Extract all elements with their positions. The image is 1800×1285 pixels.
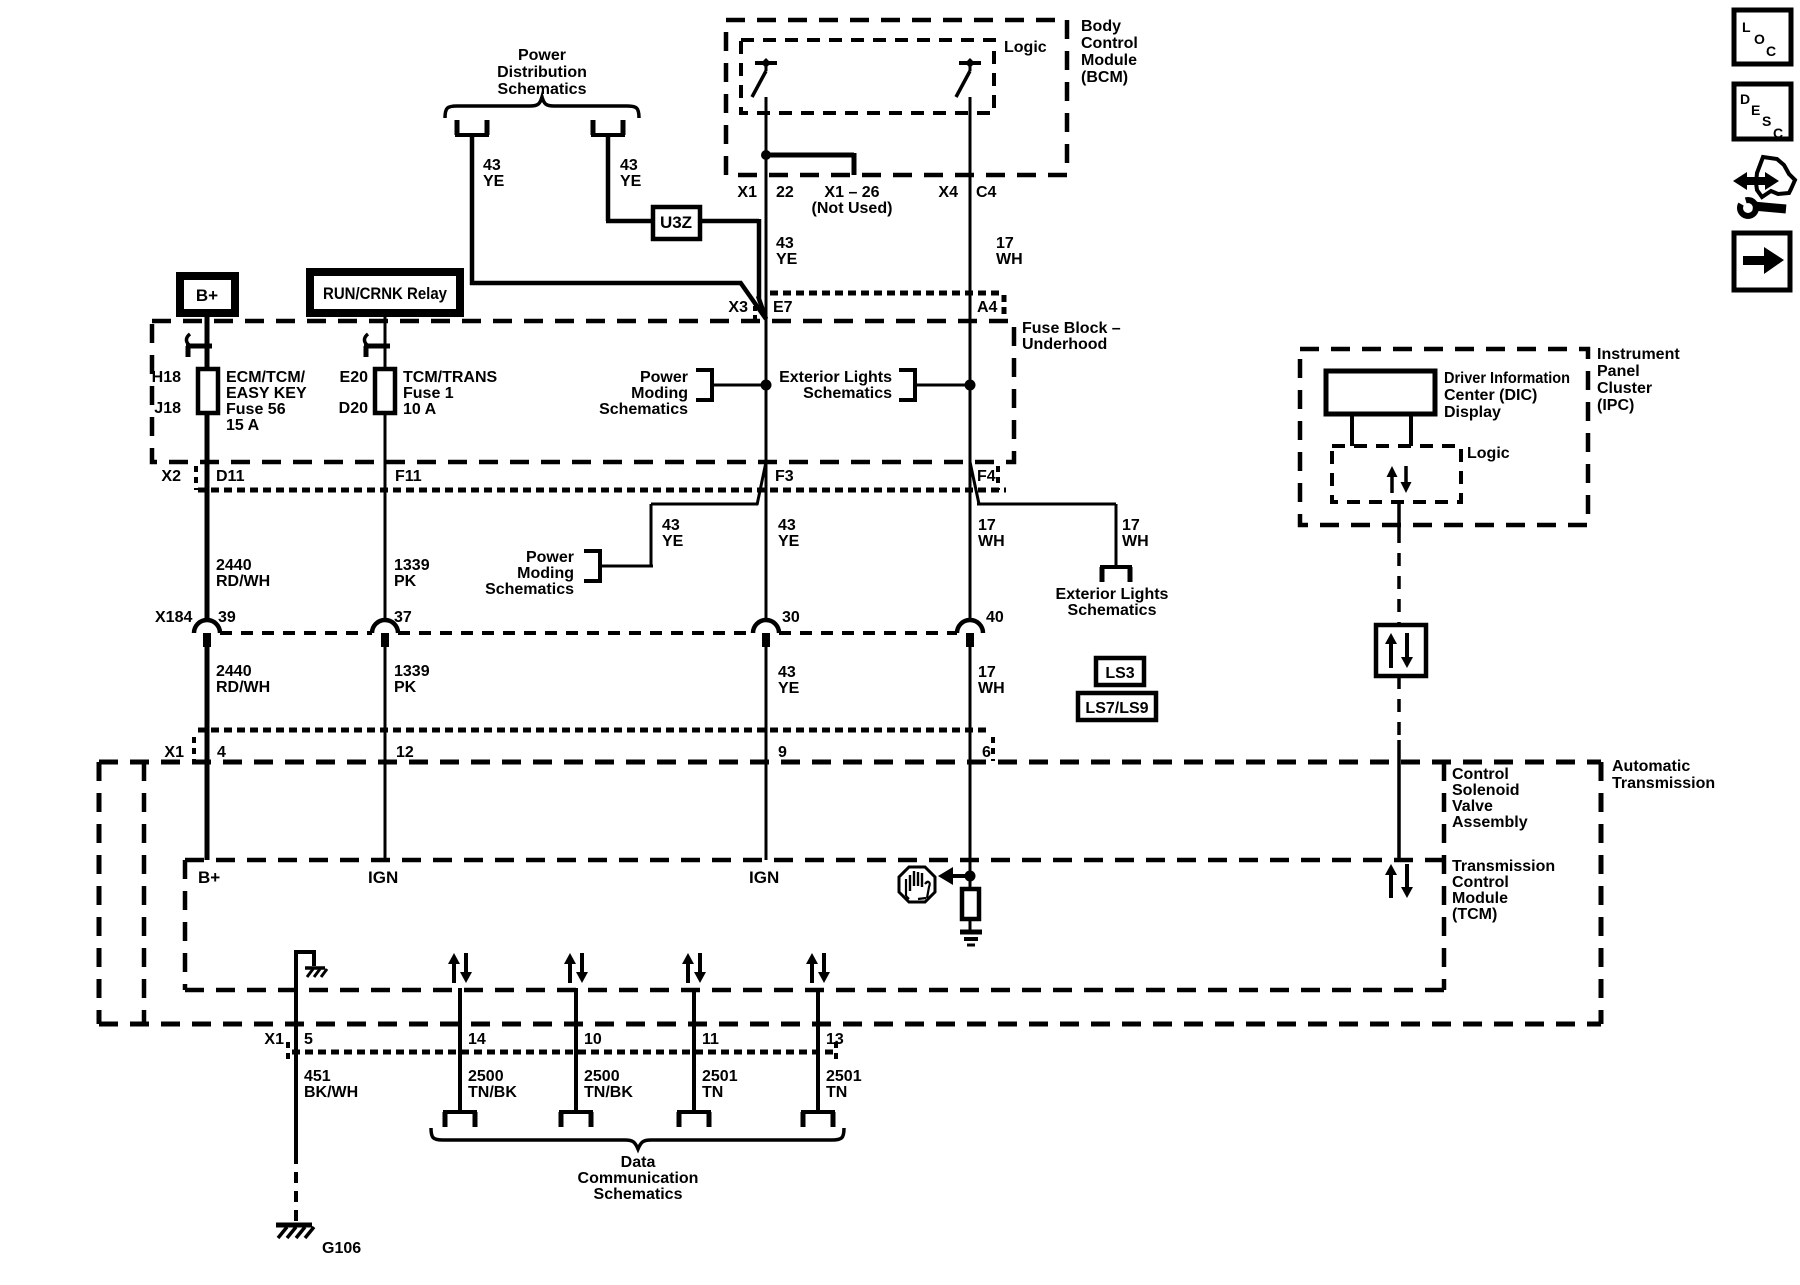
svg-text:Module: Module — [1452, 890, 1508, 907]
component U3Z — [653, 207, 700, 239]
svg-text:Moding: Moding — [517, 565, 574, 582]
IPC label — [1597, 346, 1680, 414]
wire 43 YE lower — [765, 647, 768, 860]
svg-text:X1: X1 — [737, 184, 757, 201]
brace power distribution — [445, 97, 639, 118]
wire IPC serial data dashed lower — [1397, 676, 1401, 858]
pin label X1 22 — [737, 184, 793, 201]
svg-text:Schematics: Schematics — [1068, 602, 1157, 619]
svg-text:X4: X4 — [938, 184, 958, 201]
svg-text:X3: X3 — [728, 299, 748, 316]
IPC logic dashed box — [1332, 446, 1461, 502]
svg-text:RD/WH: RD/WH — [216, 679, 270, 696]
label Exterior Lights Schematics (fuse block) — [779, 369, 892, 402]
svg-text:Logic: Logic — [1004, 39, 1047, 56]
fuse block label — [1022, 320, 1121, 353]
svg-text:Logic: Logic — [1467, 445, 1510, 462]
svg-text:Distribution: Distribution — [497, 64, 587, 81]
bracket power moding 2 — [584, 551, 600, 581]
engine code LS7/LS9 box — [1078, 693, 1156, 720]
power feed RUN/CRNK Relay box — [310, 272, 460, 313]
svg-text:Center (DIC): Center (DIC) — [1444, 387, 1537, 404]
control solenoid valve assembly label — [1452, 766, 1528, 831]
connector half exterior lights — [1100, 567, 1132, 582]
node junction 17WH/TCM — [965, 871, 976, 882]
svg-text:Display: Display — [1444, 404, 1501, 421]
connector hook H18 — [186, 334, 212, 357]
DIC display box — [1326, 371, 1435, 414]
svg-text:F3: F3 — [775, 468, 794, 485]
icon DESC box — [1734, 84, 1791, 141]
svg-text:43: 43 — [662, 517, 680, 534]
wire label 17 WH main — [978, 517, 1005, 550]
wire 2440 RD/WH label lower — [216, 663, 270, 696]
wire 17 WH lower — [969, 647, 972, 873]
svg-text:Fuse Block –: Fuse Block – — [1022, 320, 1121, 337]
wire BCM C4 drop — [969, 97, 972, 620]
svg-text:LS3: LS3 — [1105, 665, 1134, 682]
svg-text:Transmission: Transmission — [1452, 858, 1555, 875]
svg-text:Automatic: Automatic — [1612, 758, 1690, 775]
svg-text:Data: Data — [621, 1154, 656, 1171]
pin labels X2 D11 F11 F3 F4 — [161, 468, 995, 485]
serial data arrows (pin 13) — [806, 953, 830, 983]
svg-text:E7: E7 — [773, 299, 793, 316]
BCM logic dashed box — [741, 40, 994, 113]
svg-text:WH: WH — [978, 680, 1005, 697]
svg-text:YE: YE — [776, 251, 798, 268]
BCM label — [1081, 18, 1138, 86]
svg-text:F11: F11 — [395, 468, 422, 485]
control solenoid valve assembly dashed edges — [144, 762, 1444, 1024]
svg-text:G106: G106 — [322, 1240, 361, 1257]
wire 1339 PK label upper — [394, 557, 430, 590]
label Exterior Lights Schematics 2 — [1056, 586, 1169, 619]
wire branch to power moding 2 — [600, 462, 766, 567]
connector half (power dist right) — [591, 120, 625, 135]
svg-text:Solenoid: Solenoid — [1452, 782, 1520, 799]
wire label 2501 TN (13) — [826, 1068, 862, 1101]
svg-text:Valve: Valve — [1452, 798, 1493, 815]
wire label 43 YE main — [778, 517, 800, 550]
svg-text:Control: Control — [1452, 874, 1509, 891]
wire label 43 YE (pin22) — [776, 235, 798, 268]
wire fuse56 to X2 — [205, 413, 210, 620]
svg-text:43: 43 — [620, 157, 638, 174]
svg-text:D: D — [1740, 91, 1750, 107]
svg-text:EASY KEY: EASY KEY — [226, 385, 307, 402]
svg-text:C: C — [1766, 43, 1776, 59]
svg-text:ECM/TCM/: ECM/TCM/ — [226, 369, 306, 386]
svg-text:H18: H18 — [152, 369, 181, 386]
wire label 17 WH (C4) — [996, 235, 1023, 268]
module IPC dashed box — [1300, 349, 1588, 525]
pin labels X3 E7 A4 — [728, 299, 997, 316]
svg-text:(IPC): (IPC) — [1597, 397, 1634, 414]
icon vehicle arrows wrench — [1732, 157, 1795, 216]
wire label 2500 TN/BK (14) — [468, 1068, 517, 1101]
wire label 43 YE (left feed) — [483, 157, 505, 190]
connector row X3 E7 A4 dotted — [755, 293, 1004, 320]
svg-text:6: 6 — [982, 744, 991, 761]
wire BCM pin22 drop — [765, 97, 768, 321]
svg-text:PK: PK — [394, 679, 417, 696]
svg-text:40: 40 — [986, 609, 1004, 626]
resistor R (internal pull) — [962, 876, 979, 919]
svg-text:2500: 2500 — [584, 1068, 620, 1085]
svg-text:2501: 2501 — [826, 1068, 862, 1085]
svg-text:Control: Control — [1081, 35, 1138, 52]
svg-text:YE: YE — [620, 173, 642, 190]
connector row X2 dotted — [196, 466, 1006, 490]
wire 43 YE right feed to U3Z — [606, 135, 653, 221]
wire IPC serial data dashed upper — [1397, 502, 1401, 625]
serial data arrows (pin 11) — [682, 953, 706, 983]
icon arrow box — [1734, 233, 1790, 290]
module TCM dashed box — [185, 860, 1444, 990]
svg-text:TN: TN — [702, 1084, 723, 1101]
node junction 17WH/exterior lights — [965, 380, 976, 391]
wire bracket to 43YE — [712, 384, 766, 387]
svg-text:Power: Power — [526, 549, 574, 566]
wire 2440 RD/WH lower — [205, 647, 210, 860]
serial data arrows (pin 14) — [448, 953, 472, 983]
wire fuse1 to X2 — [384, 413, 387, 620]
svg-text:15 A: 15 A — [226, 417, 260, 434]
wire 1339 PK lower — [384, 647, 387, 860]
svg-text:(TCM): (TCM) — [1452, 906, 1497, 923]
svg-text:2500: 2500 — [468, 1068, 504, 1085]
wire pin11 drop — [692, 988, 696, 1112]
wire 43 YE left feed — [470, 135, 766, 319]
wire branch to exterior lights 2 — [970, 462, 1116, 567]
fuse 1 label — [403, 369, 498, 418]
serial data arrows TCM right — [1385, 864, 1413, 898]
wire 17 WH label lower — [978, 664, 1005, 697]
serial data arrows (pin 10) — [564, 953, 588, 983]
wire pin13 drop — [816, 988, 820, 1112]
connector row X1 bottom dotted — [288, 1042, 836, 1064]
svg-text:Panel: Panel — [1597, 363, 1640, 380]
svg-text:1339: 1339 — [394, 663, 430, 680]
power feed B+ box — [180, 276, 235, 313]
ground G106 — [276, 1225, 361, 1257]
bracket power moding 1 — [696, 370, 712, 400]
svg-text:E20: E20 — [340, 369, 369, 386]
serial data link box — [1376, 625, 1426, 676]
svg-text:J18: J18 — [154, 400, 181, 417]
svg-text:Module: Module — [1081, 52, 1137, 69]
fuse F1 (TCM/TRANS) — [375, 369, 395, 413]
icon LOC box — [1734, 10, 1791, 64]
net label IGN 1 — [368, 868, 398, 887]
svg-text:11: 11 — [702, 1031, 719, 1048]
wire B+ to fuse block — [205, 313, 210, 369]
svg-text:A4: A4 — [977, 299, 998, 316]
wire label 2500 TN/BK (10) — [584, 1068, 633, 1101]
pin label X4 C4 — [938, 184, 996, 201]
svg-text:Schematics: Schematics — [594, 1186, 683, 1203]
svg-text:TN/BK: TN/BK — [468, 1084, 517, 1101]
stop hand icon octagon — [899, 867, 935, 902]
connector half pin11 — [677, 1112, 711, 1127]
switch S1 BCM left — [752, 58, 777, 97]
label Data Communication Schematics — [578, 1154, 699, 1203]
svg-text:43: 43 — [778, 664, 796, 681]
svg-text:10 A: 10 A — [403, 401, 437, 418]
connector row X1 (TCM) dotted — [194, 730, 993, 761]
svg-text:L: L — [1742, 19, 1751, 35]
serial data arrows IPC logic — [1387, 466, 1412, 493]
svg-text:(Not Used): (Not Used) — [812, 200, 893, 217]
label Power Moding Schematics 2 — [485, 549, 574, 598]
module Fuse Block Underhood dashed box — [152, 321, 1014, 462]
pin labels H18 J18 — [152, 369, 181, 417]
svg-text:30: 30 — [782, 609, 800, 626]
svg-text:X1 – 26: X1 – 26 — [824, 184, 879, 201]
svg-text:Fuse 56: Fuse 56 — [226, 401, 286, 418]
svg-text:E: E — [1751, 102, 1760, 118]
svg-text:2501: 2501 — [702, 1068, 738, 1085]
connector half pin10 — [559, 1112, 593, 1127]
wire 43 YE label lower — [778, 664, 800, 697]
svg-text:TCM/TRANS: TCM/TRANS — [403, 369, 498, 386]
connector half (power dist left) — [455, 120, 489, 135]
svg-text:1339: 1339 — [394, 557, 430, 574]
svg-text:17: 17 — [978, 517, 996, 534]
svg-text:C: C — [1773, 125, 1783, 141]
svg-text:2440: 2440 — [216, 663, 252, 680]
wire U3Z to E7 — [700, 219, 766, 319]
wire 451 dashed to G106 — [294, 1153, 298, 1221]
BCM logic label — [1004, 39, 1047, 56]
brace data communication — [431, 1128, 844, 1149]
wire label 451 BK/WH — [304, 1068, 358, 1101]
svg-text:PK: PK — [394, 573, 417, 590]
svg-text:5: 5 — [304, 1031, 313, 1048]
svg-text:43: 43 — [483, 157, 501, 174]
module Automatic Transmission dashed box — [99, 762, 1601, 1024]
svg-text:B+: B+ — [196, 286, 218, 305]
svg-text:Body: Body — [1081, 18, 1121, 35]
wire 43YE main drop — [765, 321, 768, 620]
svg-text:U3Z: U3Z — [660, 213, 692, 232]
wires DIC to logic — [1352, 414, 1411, 446]
svg-text:43: 43 — [776, 235, 794, 252]
svg-text:Moding: Moding — [631, 385, 688, 402]
svg-text:IGN: IGN — [368, 868, 398, 887]
wire 1339 PK label lower — [394, 663, 430, 696]
svg-text:LS7/LS9: LS7/LS9 — [1085, 700, 1148, 717]
connector half pin13 — [801, 1112, 835, 1127]
svg-text:D11: D11 — [216, 468, 245, 485]
bracket exterior lights 1 — [899, 370, 915, 400]
svg-text:WH: WH — [996, 251, 1023, 268]
svg-text:Exterior Lights: Exterior Lights — [1056, 586, 1169, 603]
svg-text:B+: B+ — [198, 868, 220, 887]
svg-text:Control: Control — [1452, 766, 1509, 783]
pin label X1-26 Not Used — [812, 184, 893, 217]
svg-text:(BCM): (BCM) — [1081, 69, 1128, 86]
wire pin14 drop — [458, 988, 462, 1112]
svg-text:9: 9 — [778, 744, 787, 761]
fuse 56 label — [226, 369, 307, 434]
connector row X184 dashed — [220, 631, 957, 635]
svg-text:Fuse 1: Fuse 1 — [403, 385, 454, 402]
svg-text:17: 17 — [996, 235, 1014, 252]
svg-text:YE: YE — [483, 173, 505, 190]
label Power Distribution Schematics — [497, 47, 587, 98]
svg-text:IGN: IGN — [749, 868, 779, 887]
svg-text:Schematics: Schematics — [485, 581, 574, 598]
svg-text:WH: WH — [1122, 533, 1149, 550]
connector X184 pin30 arc — [753, 620, 779, 647]
connector X184 pin37 arc — [372, 620, 398, 647]
svg-text:RUN/CRNK Relay: RUN/CRNK Relay — [323, 284, 447, 303]
svg-text:Underhood: Underhood — [1022, 336, 1107, 353]
svg-text:17: 17 — [1122, 517, 1140, 534]
svg-text:BK/WH: BK/WH — [304, 1084, 358, 1101]
ground takeoff elbow TCM — [294, 952, 327, 1153]
svg-text:Power: Power — [640, 369, 688, 386]
svg-text:43: 43 — [778, 517, 796, 534]
pin labels E20 D20 — [339, 369, 368, 417]
svg-text:F4: F4 — [977, 468, 996, 485]
net label IGN 2 — [749, 868, 779, 887]
pin labels X184 39 37 30 40 — [155, 609, 1004, 626]
svg-text:C4: C4 — [976, 184, 997, 201]
wire label 17 WH branch — [1122, 517, 1149, 550]
svg-text:Transmission: Transmission — [1612, 775, 1715, 792]
svg-text:X1: X1 — [264, 1031, 284, 1048]
wire pin10 drop — [574, 988, 578, 1112]
svg-text:14: 14 — [468, 1031, 486, 1048]
fuse F56 (ECM/TCM/EASY KEY) — [198, 369, 218, 413]
switch S2 BCM right — [956, 58, 981, 97]
wire bracket to 17WH — [915, 384, 970, 387]
ground internal TCM (resistor) — [960, 919, 982, 945]
svg-text:Schematics: Schematics — [803, 385, 892, 402]
svg-text:Schematics: Schematics — [599, 401, 688, 418]
pin labels X1 4 12 9 6 — [164, 744, 991, 761]
svg-text:WH: WH — [978, 533, 1005, 550]
svg-text:39: 39 — [218, 609, 236, 626]
svg-text:37: 37 — [394, 609, 412, 626]
svg-text:X1: X1 — [164, 744, 184, 761]
svg-text:Cluster: Cluster — [1597, 380, 1652, 397]
svg-text:Communication: Communication — [578, 1170, 699, 1187]
connector X184 pin39 arc — [194, 620, 220, 647]
connector half pin14 — [443, 1112, 477, 1127]
IPC logic label — [1467, 445, 1510, 462]
svg-text:451: 451 — [304, 1068, 331, 1085]
svg-text:4: 4 — [217, 744, 226, 761]
node junction 43YE/power moding — [761, 380, 772, 391]
svg-text:17: 17 — [978, 664, 996, 681]
wire 2440 RD/WH label upper — [216, 557, 270, 590]
node junction X1-26 takeoff — [761, 150, 771, 160]
engine code LS3 box — [1096, 658, 1144, 685]
wire label 43 YE (right feed) — [620, 157, 642, 190]
wire 17WH main drop — [969, 321, 972, 620]
svg-text:12: 12 — [396, 744, 414, 761]
wire RUN/CRNK relay to fuse block — [384, 313, 387, 369]
svg-text:YE: YE — [778, 680, 800, 697]
svg-text:Power: Power — [518, 47, 566, 64]
svg-text:2440: 2440 — [216, 557, 252, 574]
pin labels X1 5 14 10 11 13 — [264, 1031, 843, 1048]
svg-text:D20: D20 — [339, 400, 368, 417]
DIC label — [1444, 370, 1570, 421]
svg-text:O: O — [1754, 31, 1765, 47]
svg-text:RD/WH: RD/WH — [216, 573, 270, 590]
svg-text:S: S — [1762, 113, 1771, 129]
wire X1-26 not used stub — [764, 153, 854, 175]
svg-text:Driver Information: Driver Information — [1444, 370, 1570, 387]
svg-text:Exterior Lights: Exterior Lights — [779, 369, 892, 386]
connector hook E20 — [364, 334, 390, 357]
arrow to stop hand — [938, 867, 970, 885]
svg-text:YE: YE — [662, 533, 684, 550]
wire label 43 YE branch — [662, 517, 684, 550]
svg-text:TN/BK: TN/BK — [584, 1084, 633, 1101]
svg-text:13: 13 — [826, 1031, 844, 1048]
svg-text:X184: X184 — [155, 609, 192, 626]
svg-text:X2: X2 — [161, 468, 181, 485]
svg-text:YE: YE — [778, 533, 800, 550]
svg-text:Assembly: Assembly — [1452, 814, 1528, 831]
label Power Moding Schematics (fuse block) — [599, 369, 688, 418]
svg-text:Instrument: Instrument — [1597, 346, 1680, 363]
wire label 2501 TN (11) — [702, 1068, 738, 1101]
svg-text:10: 10 — [584, 1031, 602, 1048]
TCM label — [1452, 858, 1555, 923]
net label B+ — [198, 868, 220, 887]
svg-text:22: 22 — [776, 184, 794, 201]
module BCM dashed box — [726, 20, 1067, 175]
connector X184 pin40 arc — [957, 620, 983, 647]
svg-text:TN: TN — [826, 1084, 847, 1101]
automatic transmission label — [1612, 758, 1715, 792]
